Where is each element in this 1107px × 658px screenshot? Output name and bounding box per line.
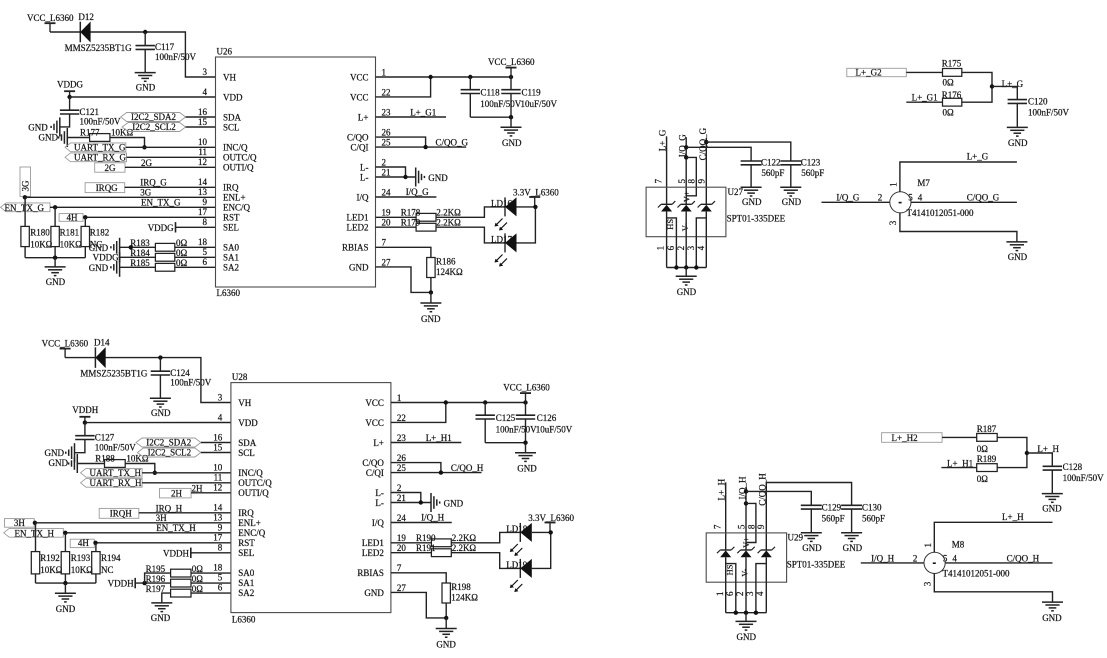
ground below M7 [1006,242,1027,251]
svg-text:5: 5 [677,179,687,184]
svg-text:2: 2 [878,192,883,202]
svg-text:I2C2_SDA2: I2C2_SDA2 [146,438,191,448]
wire R190 to LD18 [451,532,520,542]
wire RBIAS pin7 [376,247,431,257]
svg-text:560pF: 560pF [801,168,824,178]
wire L+ pin23 bottom [391,442,461,444]
svg-text:5: 5 [218,573,223,583]
svg-text:U29: U29 [788,533,804,543]
svg-text:RST: RST [223,212,240,222]
wire L+ pin23 [376,116,447,118]
svg-text:GND: GND [436,639,456,649]
wire U27 pin6 jog [667,218,677,268]
wire R195 feed [145,573,171,583]
svg-text:V+: V+ [681,191,691,202]
junction VDDH node [83,420,87,424]
wire to gnd right bottom [525,443,527,453]
svg-text:0Ω: 0Ω [192,574,204,584]
wire R183 to pin18 [175,246,216,248]
svg-text:17: 17 [198,207,208,217]
svg-text:T4141012051-000: T4141012051-000 [907,208,974,218]
wire C/QO pin26 bottom [391,463,441,473]
wire R184 to pin5 [175,256,216,258]
wire 3H to R192 [35,523,37,552]
svg-text:9: 9 [218,523,223,533]
svg-text:R185: R185 [130,258,150,268]
svg-text:C/QO: C/QO [362,458,384,468]
resistor R177 [90,134,110,142]
svg-text:ENL+: ENL+ [238,518,261,528]
svg-text:10uF/50V: 10uF/50V [521,99,558,109]
junction LED rail [533,205,537,209]
svg-text:2G: 2G [141,158,153,168]
svg-text:ENC/Q: ENC/Q [238,528,266,538]
svg-text:NC: NC [101,565,114,575]
svg-text:LD18: LD18 [506,524,527,534]
svg-text:2: 2 [382,157,387,167]
svg-text:UART_RX_H: UART_RX_H [90,478,142,488]
svg-text:L6360: L6360 [232,615,256,625]
wire SDA pin16 [186,116,216,118]
junction R177/UART_TX_G [142,145,146,149]
svg-text:10KΩ: 10KΩ [40,565,62,575]
capacitor C119 [501,90,520,94]
svg-text:22: 22 [397,413,406,423]
wire L+_G1 to R176 [906,101,942,103]
wire C120 to gnd [1016,103,1018,127]
svg-text:L+: L+ [358,112,369,122]
svg-text:OUTC/Q: OUTC/Q [238,478,272,488]
net flag UART_TX_H [81,468,143,477]
TVS diode 3 (U29) [758,547,775,557]
svg-text:3: 3 [203,67,208,77]
svg-text:26: 26 [397,453,407,463]
svg-text:R181: R181 [60,228,80,238]
wire L- pin21 [376,176,416,178]
junction bus pin3 [694,265,698,269]
net flag I2C2_SDA2 [121,113,186,122]
svg-text:L+_H: L+_H [716,478,726,500]
svg-text:L+: L+ [373,438,384,448]
svg-text:27: 27 [397,583,407,593]
svg-text:I/Q_H: I/Q_H [871,553,894,563]
wire R188 to TX net [125,464,155,473]
svg-text:2H: 2H [171,489,183,499]
wire bus to ground bottom [64,583,66,593]
capacitor C126 [516,415,535,419]
resistor R182 [81,226,89,246]
svg-text:24: 24 [382,187,392,197]
svg-text:GND: GND [89,263,109,273]
wire gnd to R177 [67,137,89,139]
junction 4H/R194 [93,541,97,545]
wire RST pin17 [83,216,216,218]
svg-text:VH: VH [238,398,251,408]
svg-text:GND: GND [39,132,59,142]
svg-text:17: 17 [213,533,223,543]
junction R188/UART_TX_H [153,471,157,475]
junction R186/pin27 [429,290,433,294]
svg-text:11: 11 [198,147,207,157]
svg-text:R188: R188 [95,453,115,463]
svg-text:13: 13 [198,187,208,197]
svg-text:R193: R193 [71,553,91,563]
wire I/Q_H to C129 [746,491,811,505]
svg-text:IRQ_H: IRQ_H [156,503,183,513]
svg-text:C128: C128 [1063,462,1083,472]
svg-text:VDD: VDD [238,418,258,428]
wire U29 pin4 down [765,557,767,612]
svg-text:6: 6 [218,583,223,593]
svg-text:1: 1 [889,182,899,187]
svg-text:VDDH: VDDH [163,548,189,558]
capacitor C124 [151,371,170,375]
wire L+_H2 to R187 [942,436,977,438]
svg-text:OUTI/Q: OUTI/Q [238,488,269,498]
wire C121 stem [69,97,71,110]
power symbol VCC_L6360 [45,23,56,32]
net flag EN_TX_H [4,528,64,537]
svg-text:GND: GND [136,82,156,92]
svg-text:14: 14 [213,503,223,513]
wire C121 to ground [60,114,70,127]
power symbol VCC_L6360 right [506,68,517,77]
junction gnd bus bottom [63,581,67,585]
svg-text:GND: GND [1042,503,1062,513]
svg-text:R183: R183 [130,238,150,248]
resistor R179 [416,223,436,231]
svg-text:VCC_L6360: VCC_L6360 [27,13,74,23]
svg-text:L+_G: L+_G [657,129,667,151]
svg-text:C125: C125 [496,413,516,423]
wire L- pin21 bottom [391,502,431,504]
LED LD18 arrows [510,544,523,556]
wire C119 bottom [510,94,512,118]
svg-text:VDDH: VDDH [72,405,98,415]
wire OUTI/Q pin12 [125,166,216,168]
svg-text:IRQ: IRQ [223,182,239,192]
wire node to C120 [992,86,1017,99]
pin names U26 left [223,72,257,272]
capacitor C121 [60,110,79,114]
wire C123 to gnd [790,165,792,188]
svg-text:I/Q_G: I/Q_G [836,192,859,202]
svg-text:560pF: 560pF [862,514,885,524]
wire I/Q_H into U29 pin5 [745,487,747,550]
wire GND pin27 bottom [391,592,446,618]
wire L+_G2 to R175 [906,71,942,73]
svg-text:20: 20 [397,543,407,553]
svg-text:10KΩ: 10KΩ [71,565,93,575]
svg-text:4: 4 [696,245,706,250]
wire U27 pin4 down [705,212,707,268]
svg-text:R180: R180 [30,228,50,238]
svg-text:18: 18 [213,563,223,573]
svg-text:9: 9 [696,179,706,184]
wire L+_H into U29 pin7 [725,482,727,550]
svg-text:VDDG: VDDG [93,253,119,263]
svg-text:L+_H1: L+_H1 [426,433,452,443]
wire R177 to TX net [110,138,145,148]
svg-text:ENL+: ENL+ [223,192,246,202]
wire ENL+ pin13 [25,196,216,198]
junction gnd bus [53,256,57,260]
resistor R181 [51,226,59,246]
svg-text:3: 3 [922,581,932,586]
svg-text:100nF/50V: 100nF/50V [1028,108,1070,118]
wire VDDG to VDD pin4 [70,96,216,98]
svg-text:U27: U27 [728,187,744,197]
svg-text:SEL: SEL [223,222,239,232]
op-amp U26 L6360 body [216,57,376,287]
resistor R194 [92,552,100,574]
wire M8 pin1 to L+_H [934,522,1052,552]
junction L+_H node [1025,451,1029,455]
wire U29 pin3 jog [756,564,766,613]
ground below C118/C119 [501,127,522,136]
diode D12 MMSZ5235BT1G [80,22,90,43]
net flag UART_TX_G [65,143,126,152]
svg-text:U26: U26 [217,46,233,56]
svg-text:SCL: SCL [238,448,255,458]
svg-text:8: 8 [203,217,208,227]
svg-text:M7: M7 [917,178,930,188]
junction bus pin6 [674,265,678,269]
wire INC/Q pin10 [126,146,216,148]
svg-text:R177: R177 [80,127,100,137]
wire C122 to gnd [750,165,752,188]
wire R181 to bus [54,247,56,258]
svg-text:4: 4 [918,192,923,202]
svg-text:VDDH: VDDH [108,579,134,589]
svg-text:RBIAS: RBIAS [357,568,384,578]
svg-text:R198: R198 [451,582,471,592]
junction pin25/26 [423,145,427,149]
wire U27 pin3 jog [696,218,706,268]
wire R185 to pin6 [175,266,216,268]
LED LD17 [505,233,517,252]
svg-text:100nF/50V: 100nF/50V [1063,473,1105,483]
svg-text:5: 5 [737,524,747,529]
svg-text:SPT01-335DEE: SPT01-335DEE [787,559,846,569]
power symbol 3.3V_L6360 bottom [545,523,556,533]
wire resistor gnd bus bottom [36,582,96,584]
svg-text:5: 5 [203,247,208,257]
junction pin22/pin1 [428,75,432,79]
svg-text:R179: R179 [401,218,421,228]
svg-text:10: 10 [213,463,223,473]
ground sideways SA0 [111,238,120,257]
wire C125 bottom [484,419,486,443]
svg-text:R191: R191 [416,543,436,553]
pin names U28 left [238,398,272,598]
svg-text:3G: 3G [20,180,30,192]
wire C129 to gnd [810,509,812,533]
svg-text:0Ω: 0Ω [176,238,188,248]
ground below C129 [801,533,822,542]
junction VDDG node [67,95,71,99]
svg-text:4: 4 [218,413,223,423]
wire R196 to pin5 [191,582,231,584]
resistor R196 [171,579,191,587]
wire GND pin27 [376,267,431,293]
junction SA VDDH [142,581,146,585]
svg-text:M8: M8 [952,539,965,549]
wire C118 stem [469,77,471,90]
svg-text:I/Q_G: I/Q_G [406,187,429,197]
svg-text:19: 19 [397,533,407,543]
wire R197 feed [162,593,171,603]
svg-text:MMSZ5235BT1G: MMSZ5235BT1G [65,43,133,53]
svg-text:9: 9 [756,524,766,529]
wire I/Q_G to pin8 [686,157,696,195]
capacitor C129 [801,505,822,509]
junction 3H/R192 [33,521,37,525]
svg-text:23: 23 [397,433,407,443]
svg-text:100nF/50V: 100nF/50V [155,52,197,62]
svg-text:C123: C123 [801,158,821,168]
svg-text:SA1: SA1 [238,578,254,588]
resistor R187 [977,434,998,442]
svg-text:3: 3 [218,393,223,403]
wire R180 to bus [24,247,26,258]
junction VCC_L6360 right [509,75,513,79]
port box 3H [5,519,35,528]
ground below C120 [1007,127,1028,136]
wire R194 to bus [95,574,97,583]
transil U29 body [706,533,786,582]
wire 3G to R180 [24,197,26,226]
LED LD17 arrows [495,255,508,267]
svg-text:UART_TX_G: UART_TX_G [74,143,126,153]
svg-text:R175: R175 [942,58,962,68]
resistor R198 [442,583,450,603]
svg-text:VDD: VDD [223,92,243,102]
wire LED anode rail bottom [532,532,551,568]
wire R191 to LD19 [451,553,520,569]
pin numbers U28 right [397,393,407,593]
ground below R186 [420,303,441,312]
svg-text:VH: VH [223,72,236,82]
svg-text:D12: D12 [78,12,94,22]
junction C125 top [483,400,487,404]
svg-text:I/Q: I/Q [357,192,369,202]
resistor R195 [171,569,191,577]
svg-text:12: 12 [213,483,222,493]
svg-text:C117: C117 [155,42,175,52]
capacitor C127 [75,436,94,440]
svg-text:R182: R182 [90,228,110,238]
wire IRQ pin14 [125,186,216,188]
svg-text:4: 4 [952,553,957,563]
junction VCC_L6360 right bottom [523,400,527,404]
resistor R190 [431,539,451,547]
pin numbers U26 left [198,67,208,267]
junction SA0 [129,245,133,249]
svg-text:R197: R197 [146,584,166,594]
LED LD18 [520,523,532,542]
wire C118 bottom [469,94,471,118]
svg-text:7: 7 [712,524,722,529]
wire I/Q_H to M8 pin2 [861,562,925,564]
svg-text:R178: R178 [401,208,421,218]
ground below M8 [1042,602,1063,611]
transformer M7 body [890,192,911,213]
port box 4H (top) [59,214,83,222]
svg-text:L-: L- [360,172,369,182]
wire C125 stem [484,403,486,416]
power symbol VDDH [79,417,90,423]
svg-text:19: 19 [382,208,392,218]
svg-text:14: 14 [198,177,208,187]
ground sideways (R188) [69,454,78,473]
svg-text:5: 5 [943,553,948,563]
svg-text:27: 27 [382,257,392,267]
wire R187 to node [997,437,1027,453]
wire LED anode rail [517,207,536,243]
svg-text:VCC: VCC [350,72,369,82]
wire U29 pin1 down [725,557,727,612]
svg-text:GND: GND [49,458,69,468]
svg-text:0Ω: 0Ω [943,107,955,117]
wire VCC pin22 bottom [391,403,446,423]
svg-text:100nF/50V: 100nF/50V [95,442,137,452]
wire C/QO_H to C130 [766,483,851,551]
wire LED1 pin19 bottom [391,542,432,544]
svg-text:MMSZ5235BT1G: MMSZ5235BT1G [80,368,148,378]
port box 2G [95,163,125,172]
svg-text:I2C2_SCL2: I2C2_SCL2 [132,122,176,132]
svg-text:0Ω: 0Ω [192,564,204,574]
power bar VDDH (SEL) [190,548,192,558]
svg-text:EN_TX_G: EN_TX_G [141,198,181,208]
resistor R175 [943,69,962,77]
transformer M8 body [924,552,945,573]
svg-text:C119: C119 [522,88,542,98]
wire ENC/Q pin9 [50,206,216,208]
svg-text:8: 8 [687,179,697,184]
svg-text:LD16: LD16 [491,198,512,208]
junction pin25/26 bottom [439,470,443,474]
wire OUTC/Q pin11 bottom [142,482,231,484]
svg-text:OUTI/Q: OUTI/Q [223,162,254,172]
svg-text:10KΩ: 10KΩ [30,239,52,249]
svg-text:21: 21 [382,167,391,177]
svg-text:6: 6 [725,591,735,596]
resistor R186 [427,258,435,278]
svg-text:5: 5 [908,192,913,202]
ground below C130 [841,533,862,542]
svg-text:RST: RST [238,538,255,548]
svg-text:2.2KΩ: 2.2KΩ [436,208,461,218]
svg-text:R195: R195 [146,564,166,574]
svg-text:SA0: SA0 [223,242,240,252]
wire VDDH to VDD pin4 [85,422,231,424]
wire I/Q_H to pin8 [746,503,756,542]
junction EN_TX_H/R193 [63,531,67,535]
svg-text:IRQ_G: IRQ_G [140,178,167,188]
wire SCL pin15 [186,126,216,128]
svg-text:0Ω: 0Ω [176,248,188,258]
svg-text:2.2KΩ: 2.2KΩ [436,218,461,228]
wire EN_TX_G to R181 [54,207,56,226]
svg-text:L+_G: L+_G [1002,79,1024,89]
svg-text:GND: GND [45,448,65,458]
capacitor C117 [136,46,155,50]
svg-text:GND: GND [151,613,171,623]
svg-text:GND: GND [843,543,863,553]
svg-text:10KΩ: 10KΩ [60,239,82,249]
